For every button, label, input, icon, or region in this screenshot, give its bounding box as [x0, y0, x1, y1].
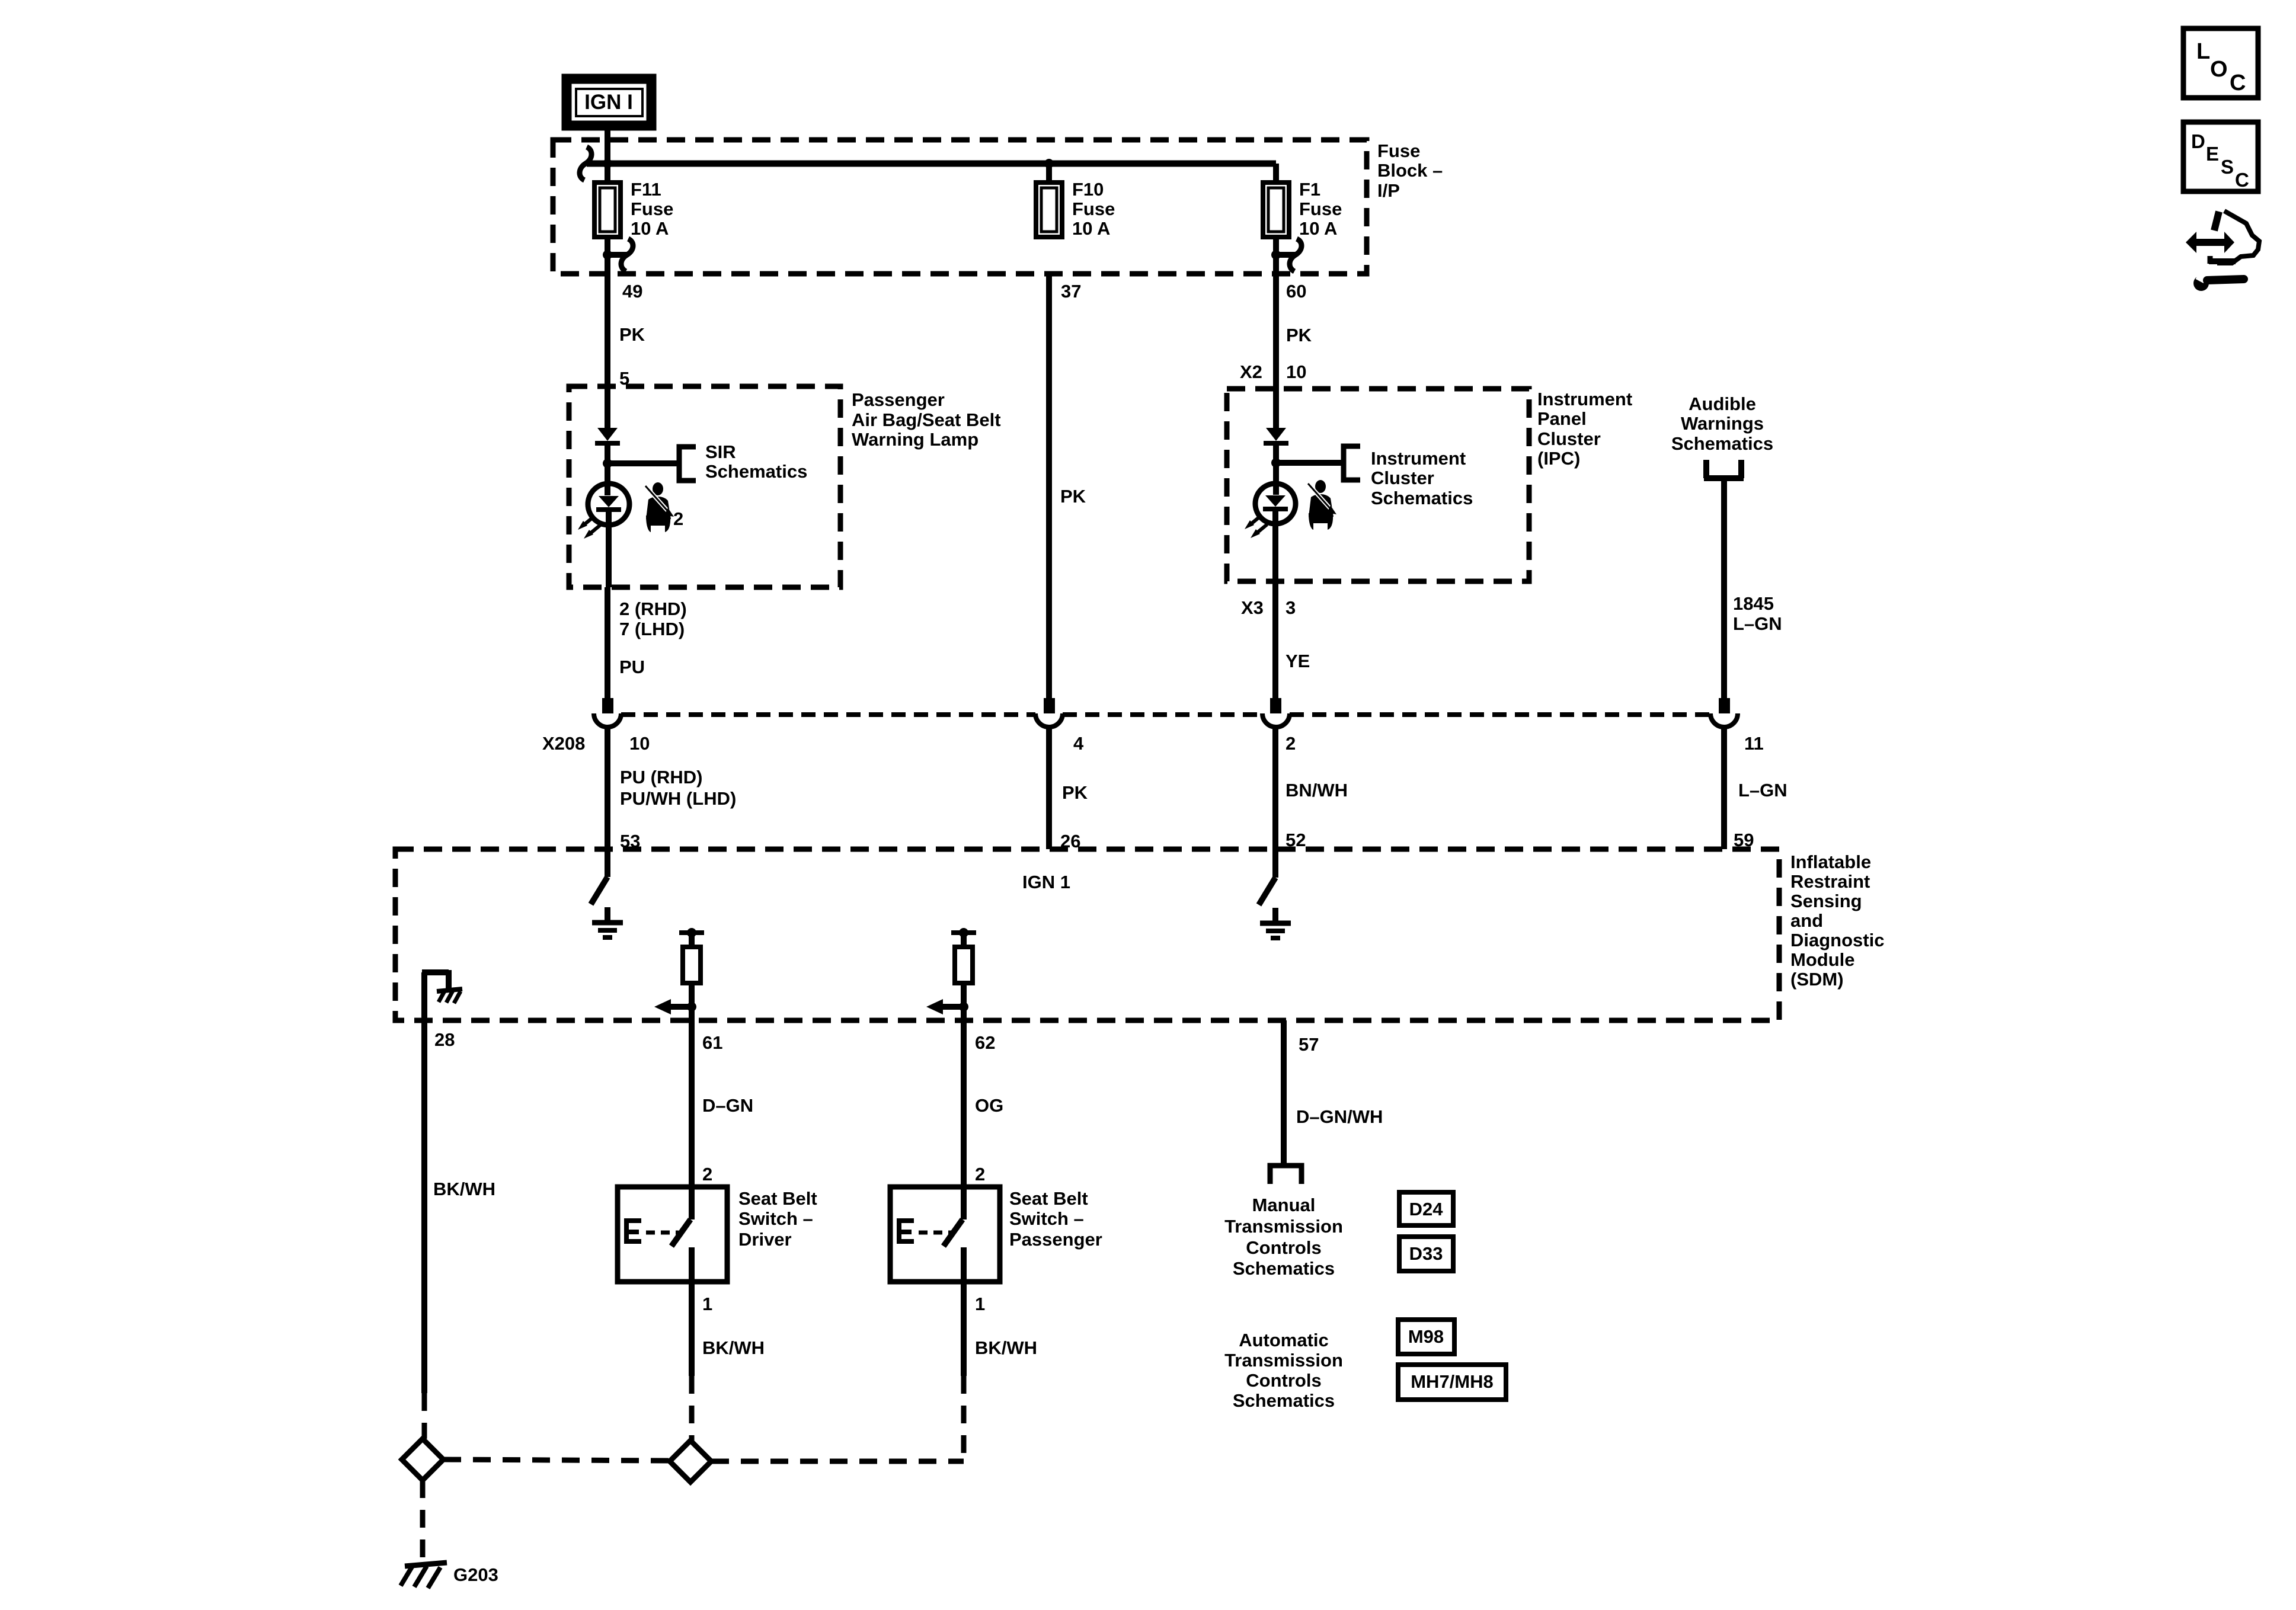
svg-text:Schematics: Schematics — [1233, 1258, 1335, 1279]
seat belt switch - driver box — [618, 1187, 727, 1282]
svg-text:L–GN: L–GN — [1733, 613, 1782, 634]
svg-text:L: L — [2196, 39, 2210, 64]
svg-text:10: 10 — [1286, 361, 1306, 382]
label Seat Belt Switch - Passenger — [1009, 1188, 1102, 1250]
seat belt switch - passenger box — [890, 1187, 1000, 1282]
svg-text:Sensing: Sensing — [1790, 891, 1862, 911]
fuse F11 10A — [594, 164, 621, 274]
wire F1 down to IPC, pin 60 / PK / X2 10 — [1240, 274, 1312, 428]
svg-text:X2: X2 — [1240, 361, 1262, 382]
svg-text:Audible: Audible — [1689, 393, 1756, 414]
svg-text:S: S — [2221, 156, 2234, 178]
svg-text:2: 2 — [975, 1164, 985, 1185]
svg-text:PK: PK — [1062, 782, 1088, 803]
seat belt telltale icon passenger lamp — [644, 482, 674, 532]
svg-text:Warning Lamp: Warning Lamp — [852, 429, 978, 450]
svg-text:61: 61 — [702, 1032, 722, 1053]
label Passenger Air Bag/Seat Belt Warning Lamp — [852, 389, 1001, 450]
svg-text:Automatic: Automatic — [1239, 1330, 1329, 1350]
svg-text:PK: PK — [1286, 325, 1312, 345]
ground G203 — [401, 1563, 498, 1588]
junction and arrow inside SDM at pin 62 — [926, 999, 968, 1014]
SIR schematics bracket — [679, 447, 696, 481]
svg-text:PK: PK — [1060, 486, 1086, 507]
svg-text:Passenger: Passenger — [1009, 1229, 1102, 1250]
svg-text:OG: OG — [975, 1095, 1003, 1116]
svg-text:Restraint: Restraint — [1790, 871, 1870, 892]
svg-text:Schematics: Schematics — [1233, 1390, 1335, 1411]
resistor inside SDM above pin 61 — [679, 928, 704, 1020]
svg-text:Warnings: Warnings — [1681, 413, 1764, 434]
svg-text:60: 60 — [1286, 281, 1306, 302]
indicator lamp LED IPC — [1255, 484, 1296, 581]
wire SDM pin 61 to driver seat belt switch, D-GN pin 2 — [692, 1020, 753, 1187]
svg-text:PK: PK — [619, 324, 645, 345]
svg-text:Passenger: Passenger — [852, 389, 945, 410]
svg-text:Seat Belt: Seat Belt — [738, 1188, 817, 1209]
seat belt telltale icon IPC — [1307, 480, 1336, 530]
svg-text:BN/WH: BN/WH — [1285, 780, 1348, 801]
junction at F1 bottom connector — [1271, 250, 1281, 260]
wire F10 down to connector row, pin 37 / PK — [1049, 274, 1086, 699]
ground inside SDM below pin 52 switch — [1260, 908, 1291, 938]
wire branch to instrument cluster schematics bracket — [1276, 460, 1344, 466]
svg-text:and: and — [1790, 910, 1823, 931]
svg-text:Controls: Controls — [1246, 1237, 1321, 1258]
svg-text:Fuse: Fuse — [1377, 140, 1420, 161]
svg-text:28: 28 — [434, 1029, 455, 1050]
svg-text:Air Bag/Seat Belt: Air Bag/Seat Belt — [852, 409, 1001, 430]
svg-text:37: 37 — [1061, 281, 1081, 302]
svg-text:D–GN: D–GN — [702, 1095, 753, 1116]
svg-text:Manual: Manual — [1252, 1195, 1316, 1215]
value label F11 Fuse 10 A — [631, 179, 673, 239]
value label F10 Fuse 10 A — [1072, 179, 1115, 239]
splice diamond on BK/WH left — [402, 1439, 443, 1480]
svg-text:L–GN: L–GN — [1738, 780, 1787, 801]
svg-text:Transmission: Transmission — [1224, 1216, 1343, 1237]
wire IGN I to fuse block bus — [605, 126, 610, 164]
svg-text:Controls: Controls — [1246, 1370, 1321, 1391]
svg-text:4: 4 — [1073, 733, 1084, 754]
svg-text:Instrument: Instrument — [1537, 389, 1632, 409]
wire driver switch pin 1, BK/WH to splice — [692, 1282, 765, 1441]
svg-text:IGN 1: IGN 1 — [1022, 872, 1070, 892]
svg-text:Seat Belt: Seat Belt — [1009, 1188, 1088, 1209]
connector curl at F11 bottom — [607, 239, 633, 271]
junction to SIR schematics branch — [603, 459, 612, 468]
switch inside SDM at pin 53 — [591, 849, 607, 904]
junction at F11 bottom connector — [603, 250, 612, 260]
splice diamond on BK/WH center — [670, 1441, 711, 1482]
svg-text:Diagnostic: Diagnostic — [1790, 930, 1884, 950]
wire SDM pin 62 to passenger seat belt switch, OG pin 2 — [964, 1020, 1003, 1187]
svg-text:G203: G203 — [453, 1564, 498, 1585]
svg-text:2 (RHD): 2 (RHD) — [619, 598, 687, 619]
svg-text:D24: D24 — [1409, 1199, 1444, 1219]
svg-text:Module: Module — [1790, 949, 1855, 970]
svg-text:M98: M98 — [1408, 1326, 1444, 1347]
svg-text:Switch –: Switch – — [738, 1208, 813, 1229]
svg-text:2: 2 — [1285, 733, 1296, 754]
svg-text:D: D — [2191, 130, 2205, 152]
svg-text:57: 57 — [1299, 1034, 1319, 1055]
wire bus inside fuse block — [587, 161, 1276, 167]
Fuse Block - I/P label — [1377, 140, 1443, 201]
reference box MH7/MH8 — [1398, 1365, 1506, 1400]
DESC hotlink button — [2183, 122, 2258, 191]
Inflatable Restraint Sensing and Diagnostic Module (SDM) dashed box — [395, 849, 1779, 1020]
svg-text:Schematics: Schematics — [1671, 433, 1773, 454]
svg-text:1: 1 — [702, 1294, 712, 1314]
svg-text:Fuse: Fuse — [631, 199, 673, 219]
svg-text:7 (LHD): 7 (LHD) — [619, 619, 685, 639]
dashed splice wire from passenger switch to center diamond — [711, 1459, 964, 1464]
svg-text:O: O — [2210, 57, 2228, 82]
junction at F11 top — [603, 159, 612, 168]
wire cavity 4 to SDM pin 26, PK — [1049, 728, 1088, 852]
svg-text:Transmission: Transmission — [1224, 1350, 1343, 1371]
svg-text:SIR: SIR — [705, 441, 736, 462]
connector cavity 11: pin and cup — [1710, 698, 1764, 754]
svg-text:PU/WH (LHD): PU/WH (LHD) — [620, 788, 736, 809]
node IGN I power feed box — [567, 79, 651, 126]
reference box D33 — [1399, 1237, 1453, 1271]
svg-text:Panel: Panel — [1537, 408, 1587, 429]
svg-text:I/P: I/P — [1377, 180, 1400, 201]
instrument cluster schematics bracket — [1344, 446, 1360, 480]
svg-text:F11: F11 — [631, 179, 661, 200]
switch inside SDM at pin 52 — [1259, 849, 1275, 905]
diode in IPC lamp circuit — [1264, 428, 1288, 495]
reference box D24 — [1399, 1192, 1453, 1225]
label SIR Schematics — [705, 441, 807, 482]
reference box M98 — [1398, 1320, 1454, 1354]
lamp emission arrows — [578, 516, 600, 539]
value label F1 Fuse 10 A — [1299, 179, 1342, 239]
label Automatic Transmission Controls Schematics — [1224, 1330, 1343, 1411]
svg-text:10 A: 10 A — [631, 218, 669, 239]
label Instrument Cluster Schematics — [1371, 448, 1473, 508]
svg-text:F10: F10 — [1072, 179, 1104, 200]
svg-text:F1: F1 — [1299, 179, 1320, 200]
svg-text:PU (RHD): PU (RHD) — [620, 767, 703, 788]
svg-text:2: 2 — [673, 508, 683, 529]
svg-text:C: C — [2235, 169, 2249, 191]
label Audible Warnings Schematics — [1671, 393, 1773, 454]
svg-text:2: 2 — [702, 1164, 712, 1185]
fuse F1 10A — [1263, 164, 1289, 274]
diode in passenger lamp circuit — [595, 428, 620, 495]
svg-text:BK/WH: BK/WH — [975, 1337, 1037, 1358]
label Inflatable Restraint Sensing and Diagnostic Module (SDM) — [1790, 852, 1884, 990]
svg-text:C: C — [2230, 71, 2246, 95]
svg-text:10: 10 — [629, 733, 650, 754]
svg-text:11: 11 — [1744, 733, 1764, 754]
svg-text:BK/WH: BK/WH — [702, 1337, 765, 1358]
svg-text:D–GN/WH: D–GN/WH — [1296, 1106, 1383, 1127]
svg-text:(IPC): (IPC) — [1537, 448, 1580, 469]
connector row dotted line — [621, 712, 1710, 717]
resistor inside SDM above pin 62 — [951, 928, 976, 1020]
dashed splice wire between diamonds — [443, 1459, 670, 1461]
svg-text:3: 3 — [1285, 597, 1296, 618]
svg-text:(SDM): (SDM) — [1790, 969, 1844, 990]
label Manual Transmission Controls Schematics — [1224, 1195, 1343, 1279]
Instrument Panel Cluster (IPC) dashed box — [1227, 389, 1529, 581]
wire lamp to connector X208, pins 2(RHD)/7(LHD), PU — [607, 587, 687, 699]
svg-text:MH7/MH8: MH7/MH8 — [1411, 1371, 1494, 1392]
svg-text:Inflatable: Inflatable — [1790, 852, 1871, 872]
junction to instrument cluster schematics branch — [1271, 458, 1281, 468]
svg-text:Instrument: Instrument — [1371, 448, 1466, 469]
svg-text:62: 62 — [975, 1032, 995, 1053]
Passenger Air Bag/Seat Belt Warning Lamp dashed box — [569, 386, 840, 587]
svg-text:1: 1 — [975, 1294, 985, 1314]
connector cavity 4: pin and cup — [1035, 698, 1084, 754]
off-page fork symbol at pin 57 — [1270, 1166, 1302, 1184]
svg-text:Schematics: Schematics — [705, 461, 807, 482]
repair hotlink icon (arrow, part outline, wrench) — [2186, 211, 2259, 291]
lamp emission arrows IPC — [1245, 516, 1267, 538]
fuse F10 10A — [1036, 164, 1062, 237]
svg-text:IGN I: IGN I — [584, 91, 633, 114]
svg-text:E: E — [2206, 143, 2219, 165]
indicator lamp LED passenger — [588, 484, 629, 587]
wire cavity 2 to SDM pin 52, BN/WH — [1275, 728, 1348, 850]
svg-text:Cluster: Cluster — [1371, 468, 1434, 488]
svg-text:D33: D33 — [1409, 1243, 1443, 1264]
connector curl at F1 bottom — [1276, 239, 1302, 271]
Fuse Block - I/P dashed outline — [553, 140, 1367, 274]
svg-text:X3: X3 — [1241, 597, 1264, 618]
svg-text:Driver: Driver — [738, 1229, 792, 1250]
connector cavity 2: pin and cup — [1262, 698, 1296, 754]
wire audible warnings to connector row, 1845 L-GN — [1724, 478, 1782, 699]
wire branch to SIR schematics bracket — [607, 460, 679, 466]
wire SDM pin 28 to splice, BK/WH — [424, 1020, 495, 1439]
svg-text:Schematics: Schematics — [1371, 488, 1473, 508]
svg-text:Cluster: Cluster — [1537, 428, 1601, 449]
wire cavity 11 to SDM pin 59, L-GN — [1724, 728, 1787, 850]
label Instrument Panel Cluster (IPC) — [1537, 389, 1632, 469]
label Seat Belt Switch - Driver — [738, 1188, 817, 1250]
svg-text:Fuse: Fuse — [1072, 199, 1115, 219]
svg-text:10 A: 10 A — [1072, 218, 1110, 239]
ground inside SDM below pin 53 switch — [592, 907, 623, 937]
svg-text:1845: 1845 — [1733, 593, 1774, 614]
audible warnings bracket — [1704, 460, 1744, 478]
connector curl at bus left end — [580, 147, 591, 180]
wire F11 to passenger lamp, pin 49 / PK / pin 5 — [607, 274, 645, 428]
svg-text:Block –: Block – — [1377, 160, 1443, 181]
junction at F10 top — [1044, 159, 1054, 168]
chassis ground inside SDM at pin 28 — [422, 970, 462, 1020]
svg-text:Switch –: Switch – — [1009, 1208, 1084, 1229]
wire IPC to connector row, X3 3, YE — [1241, 581, 1310, 699]
svg-text:10 A: 10 A — [1299, 218, 1337, 239]
svg-text:BK/WH: BK/WH — [433, 1179, 495, 1199]
wire SDM pin 57, D-GN/WH — [1284, 1020, 1383, 1163]
dashed wire splice to ground G203 — [420, 1480, 426, 1564]
svg-text:X208: X208 — [542, 733, 585, 754]
junction and arrow inside SDM at pin 61 — [654, 999, 696, 1014]
LOC hotlink button — [2183, 28, 2258, 98]
svg-text:PU: PU — [619, 657, 645, 677]
connector X208 cavity 10: pin and cup — [542, 698, 650, 754]
svg-text:Fuse: Fuse — [1299, 199, 1342, 219]
svg-text:YE: YE — [1285, 651, 1310, 671]
wire X208-10 to SDM pin 53, PU (RHD) PU/WH (LHD) — [607, 728, 736, 852]
svg-text:49: 49 — [622, 281, 642, 302]
wire passenger switch pin 1, BK/WH to splice line — [964, 1282, 1037, 1461]
